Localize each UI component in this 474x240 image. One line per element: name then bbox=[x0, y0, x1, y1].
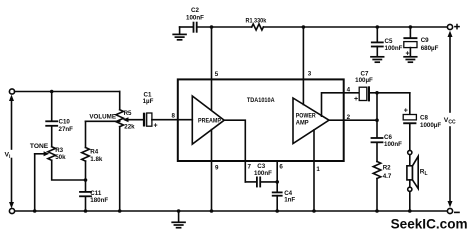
svg-text:VOLUME: VOLUME bbox=[89, 113, 116, 120]
svg-text:C8: C8 bbox=[420, 115, 428, 122]
resistor R1 bbox=[246, 18, 267, 30]
svg-text:5: 5 bbox=[215, 71, 219, 78]
wire (pin 5 from top rail) bbox=[211, 27, 213, 110]
svg-text:9: 9 bbox=[215, 165, 219, 172]
node (R3/R4/C11) bbox=[84, 178, 88, 182]
wire (R3 wiper) bbox=[35, 151, 50, 211]
terminal (input bottom left) bbox=[9, 208, 14, 213]
svg-text:6: 6 bbox=[279, 163, 283, 170]
wire (C1 to pin 8) bbox=[152, 119, 192, 121]
terminal - (supply negative) bbox=[447, 208, 459, 213]
svg-text:+: + bbox=[354, 96, 358, 103]
capacitor C4 bbox=[273, 190, 296, 211]
node (C7 / down line) bbox=[375, 91, 379, 95]
ground (top left, for C2) bbox=[173, 27, 186, 40]
svg-text:SeekIC.com: SeekIC.com bbox=[391, 216, 468, 231]
svg-text:+: + bbox=[404, 107, 408, 114]
svg-text:100nF: 100nF bbox=[384, 141, 402, 148]
node (C9) bbox=[409, 25, 413, 29]
terminal + (supply positive) bbox=[447, 24, 459, 29]
svg-text:7: 7 bbox=[248, 163, 252, 170]
svg-text:1000µF: 1000µF bbox=[420, 122, 441, 129]
svg-text:27nF: 27nF bbox=[59, 126, 74, 133]
svg-text:100nF: 100nF bbox=[186, 15, 204, 22]
svg-text:C5: C5 bbox=[385, 38, 393, 45]
wire (C7 to C8 branch) bbox=[370, 92, 410, 94]
svg-text:4: 4 bbox=[347, 87, 351, 94]
node (C10 tap) bbox=[50, 90, 54, 94]
svg-text:1: 1 bbox=[316, 166, 320, 173]
svg-text:8: 8 bbox=[172, 113, 176, 120]
capacitor C5 bbox=[372, 27, 403, 56]
svg-text:50k: 50k bbox=[55, 154, 66, 161]
node (C2 / pin 5) bbox=[210, 25, 214, 29]
wire (top rail to + terminal) bbox=[263, 26, 447, 28]
node VCC line with arrows bbox=[444, 31, 456, 208]
svg-text:POWER: POWER bbox=[296, 113, 316, 120]
wire (R5 wiper to C1) bbox=[123, 117, 143, 122]
resistor R4 bbox=[82, 121, 103, 180]
svg-text:C6: C6 bbox=[384, 134, 392, 141]
ground (under C5) bbox=[371, 57, 384, 62]
terminal (input top left) bbox=[9, 89, 14, 94]
svg-text:PREAMP: PREAMP bbox=[198, 118, 221, 125]
wire (pin 6 down) bbox=[276, 161, 278, 192]
op-amp preamp triangle bbox=[192, 96, 224, 144]
svg-text:100nF: 100nF bbox=[385, 45, 403, 52]
svg-text:C9: C9 bbox=[421, 37, 429, 44]
svg-text:C11: C11 bbox=[90, 190, 102, 197]
wire bbox=[180, 26, 193, 28]
svg-text:TDA1010A: TDA1010A bbox=[247, 97, 275, 104]
svg-text:680µF: 680µF bbox=[421, 45, 439, 52]
wire (preamp output to pin 7) bbox=[224, 120, 245, 182]
svg-text:1µF: 1µF bbox=[143, 98, 154, 105]
node (C3 / pin 6) bbox=[275, 180, 279, 184]
wire (node down to pin2 wire and C6) bbox=[376, 93, 378, 138]
svg-text:22k: 22k bbox=[124, 124, 135, 131]
svg-text:R2: R2 bbox=[383, 164, 391, 171]
ground (under C9) bbox=[404, 57, 417, 62]
capacitor C11 bbox=[80, 180, 108, 211]
potentiometer R5 (VOLUME) bbox=[89, 92, 135, 212]
svg-text:R1 330k: R1 330k bbox=[246, 18, 267, 25]
wire (pin 9 from preamp) bbox=[211, 130, 213, 211]
svg-text:3: 3 bbox=[308, 71, 312, 78]
node (pin 2 tee) bbox=[375, 118, 379, 122]
svg-text:R5: R5 bbox=[124, 110, 132, 117]
ground (bottom rail) bbox=[172, 211, 185, 228]
svg-text:4.7: 4.7 bbox=[383, 173, 392, 180]
svg-text:R4: R4 bbox=[90, 148, 98, 155]
svg-text:AMP: AMP bbox=[296, 120, 309, 127]
wire (input to volume pot) bbox=[15, 91, 120, 93]
capacitor C3 bbox=[254, 163, 272, 186]
wire (C3 to pin 6 line) bbox=[261, 181, 277, 183]
potentiometer R3 (TONE) bbox=[30, 143, 66, 161]
wire (R4 top to R5 bottom) bbox=[86, 120, 120, 122]
wire (pin 1 from power amp to bottom rail) bbox=[313, 130, 315, 211]
node (pin 3) bbox=[302, 25, 306, 29]
resistor R2 bbox=[373, 162, 392, 212]
capacitor C9 (electrolytic) bbox=[403, 27, 438, 57]
op-amp power amp triangle bbox=[293, 98, 329, 144]
bottom rail wire bbox=[15, 210, 448, 212]
svg-text:TONE: TONE bbox=[30, 143, 48, 150]
capacitor C8 (electrolytic) bbox=[403, 93, 441, 151]
svg-text:100nF: 100nF bbox=[254, 170, 272, 177]
svg-text:C2: C2 bbox=[191, 7, 199, 14]
svg-text:1.8k: 1.8k bbox=[90, 156, 103, 163]
node (C5) bbox=[376, 25, 380, 29]
node dots on bottom rail bbox=[33, 209, 37, 213]
svg-text:180nF: 180nF bbox=[90, 197, 108, 204]
capacitor C10 bbox=[46, 92, 73, 147]
wire (power amp output / pin 2) bbox=[329, 119, 377, 121]
wire (pin 7 to C3) bbox=[245, 181, 256, 183]
capacitor C6 bbox=[372, 134, 403, 162]
svg-text:1nF: 1nF bbox=[284, 197, 295, 204]
capacitor C2 bbox=[186, 7, 204, 32]
capacitor C7 (electrolytic) bbox=[354, 71, 373, 104]
wire (R3 bottom to R4/C11 node) bbox=[52, 160, 86, 180]
net Vi marker line bbox=[5, 95, 15, 209]
svg-text:+: + bbox=[153, 123, 157, 130]
svg-text:C10: C10 bbox=[59, 119, 71, 126]
svg-text:100µF: 100µF bbox=[355, 77, 373, 84]
wire (pin 4 branch from output) bbox=[322, 93, 360, 116]
capacitor C1 (electrolytic) bbox=[143, 91, 158, 129]
wire (pin 3 from top rail) bbox=[302, 27, 304, 105]
svg-text:2: 2 bbox=[347, 114, 351, 121]
op-amp IC U1 TDA1010A outline bbox=[178, 79, 344, 161]
wire bbox=[198, 26, 252, 28]
speaker RL bbox=[407, 150, 428, 211]
